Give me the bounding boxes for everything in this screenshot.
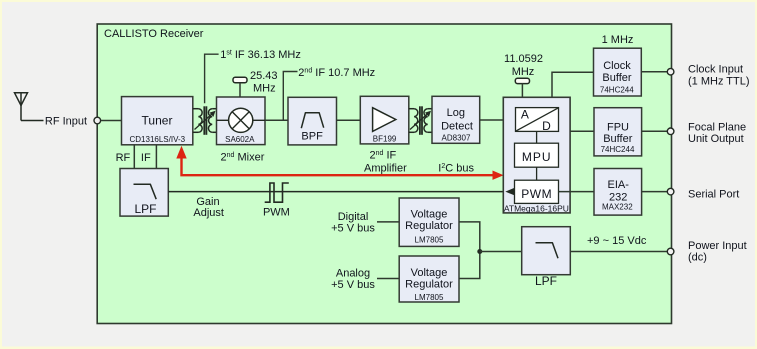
svg-text:FPU: FPU [607, 122, 629, 134]
block Tuner [122, 97, 193, 145]
callout 2nd IF 10.7 MHz [283, 72, 297, 121]
node RF input port [94, 117, 101, 124]
svg-text:MHz: MHz [253, 83, 276, 95]
wire mixer to BPF [265, 119, 288, 121]
block Log Detect AD8307 [432, 96, 480, 143]
svg-text:1 MHz: 1 MHz [602, 34, 634, 46]
transformer T1 [193, 106, 217, 135]
block EIA-232 MAX232 [594, 169, 642, 216]
svg-text:Log: Log [447, 107, 465, 119]
svg-text:BPF: BPF [301, 130, 323, 142]
block FPU Buffer 74HC244 [594, 108, 642, 156]
wire RF port to Tuner [101, 120, 122, 122]
A/D converter box [516, 108, 559, 132]
svg-text:LPF: LPF [535, 274, 557, 288]
svg-text:74HC244: 74HC244 [601, 145, 635, 154]
MPU box [515, 143, 559, 167]
PWM output arrowhead [505, 188, 514, 195]
svg-text:1st IF 36.13 MHz: 1st IF 36.13 MHz [220, 49, 301, 61]
wire regulators to junction [459, 222, 480, 279]
svg-text:RF Input: RF Input [45, 116, 87, 128]
wire gain adjust line (LPF1 to ATmega PWM) [168, 191, 514, 193]
antenna ANT1 [15, 93, 28, 121]
wire ATmega to EIA-232 [559, 191, 595, 193]
svg-text:+5 V bus: +5 V bus [331, 223, 375, 235]
svg-text:Detect: Detect [441, 120, 473, 132]
block LPF2 [522, 227, 571, 288]
svg-text:PWM: PWM [263, 206, 290, 218]
block amplifier BF199 [360, 96, 409, 144]
svg-text:PWM: PWM [521, 187, 552, 201]
svg-text:Regulator: Regulator [405, 279, 453, 291]
T2 tuning arrow [410, 113, 429, 130]
wire MPU to PWM [536, 167, 538, 180]
wire analog bus to regulator 2 [377, 278, 399, 280]
svg-text:EIA-: EIA- [607, 179, 629, 191]
svg-text:Clock: Clock [603, 60, 631, 72]
T1 tuning arrow [195, 113, 214, 130]
transformer T2 [409, 106, 432, 135]
crystal X1 25.43 MHz [233, 70, 278, 97]
svg-text:SA602A: SA602A [225, 135, 255, 144]
svg-text:Buffer: Buffer [603, 133, 632, 145]
svg-text:Voltage: Voltage [411, 209, 448, 221]
svg-text:+9 ~ 15 Vdc: +9 ~ 15 Vdc [587, 235, 647, 247]
wire antenna to RF Input label [21, 120, 44, 122]
crystal X2 11.0592 MHz [504, 53, 543, 97]
svg-text:2nd IF: 2nd IF [370, 149, 397, 161]
block BPF [288, 97, 337, 145]
svg-text:LM7805: LM7805 [415, 236, 444, 245]
svg-text:11.0592: 11.0592 [504, 53, 543, 65]
svg-text:Clock Input: Clock Input [688, 64, 743, 76]
svg-text:(dc): (dc) [688, 252, 707, 264]
svg-text:Focal Plane: Focal Plane [688, 122, 746, 134]
svg-text:RF: RF [116, 152, 131, 164]
svg-text:Unit Output: Unit Output [688, 133, 744, 145]
svg-text:Adjust: Adjust [193, 207, 224, 219]
svg-text:+5 V bus: +5 V bus [331, 279, 375, 291]
wire Tuner IF out to LPF [155, 145, 157, 169]
svg-text:Regulator: Regulator [405, 220, 453, 232]
wire digital bus to regulator 1 [377, 221, 399, 223]
svg-text:(1 MHz TTL): (1 MHz TTL) [688, 75, 750, 87]
node FPU output port [667, 128, 674, 135]
svg-text:MAX232: MAX232 [602, 202, 633, 211]
svg-text:Amplifier: Amplifier [364, 162, 407, 174]
symbol PWM square wave [265, 183, 289, 202]
svg-text:Voltage: Voltage [411, 267, 448, 279]
junction node power bus [477, 249, 482, 254]
wire Clock Buffer to clock port [641, 71, 667, 73]
svg-text:MPU: MPU [522, 150, 552, 164]
svg-text:Tuner: Tuner [142, 114, 173, 128]
svg-text:Analog: Analog [336, 267, 370, 279]
node serial port [667, 188, 674, 195]
block voltage regulator U2 LM7805 [399, 198, 459, 246]
block LPF1 [120, 169, 168, 217]
svg-text:AD8307: AD8307 [442, 133, 471, 142]
svg-text:IF: IF [141, 152, 151, 164]
svg-text:Power Input: Power Input [688, 240, 747, 252]
svg-text:Serial Port: Serial Port [688, 189, 739, 201]
wire Log Detect to ATmega A/D [480, 119, 509, 121]
svg-text:ATMega16-16PU: ATMega16-16PU [504, 204, 569, 214]
svg-text:A: A [521, 108, 529, 122]
svg-text:Buffer: Buffer [602, 72, 631, 84]
svg-text:Digital: Digital [338, 211, 369, 223]
wire BPF to amplifier [337, 119, 361, 121]
block microcontroller ATMega16-16PU [503, 97, 570, 213]
svg-text:CALLISTO Receiver: CALLISTO Receiver [104, 28, 204, 40]
wire FPU Buffer to FPU port [642, 130, 668, 132]
svg-text:CD1316LS/IV-3: CD1316LS/IV-3 [130, 135, 186, 144]
wire EIA-232 to serial port [642, 191, 668, 193]
block Clock Buffer 74HC244 [594, 48, 642, 96]
node power input port [667, 248, 674, 255]
block mixer SA602A [217, 97, 266, 145]
wire Tuner RF out to LPF [133, 145, 135, 169]
wire A/D to MPU [536, 131, 538, 143]
callout 1st IF 36.13 MHz [205, 54, 219, 103]
node clock output port [667, 68, 674, 75]
wire ATmega to Clock Buffer [552, 72, 594, 97]
svg-text:BF199: BF199 [373, 135, 397, 144]
svg-text:MHz: MHz [512, 66, 535, 78]
svg-text:Gain: Gain [196, 196, 219, 208]
svg-text:LM7805: LM7805 [415, 293, 444, 302]
svg-text:D: D [542, 119, 551, 133]
PWM box [515, 180, 559, 203]
enclosure CALLISTO Receiver [97, 24, 671, 324]
red wire gain control (tuner feedback) [182, 150, 495, 175]
wire ATmega to FPU Buffer [570, 130, 594, 132]
svg-text:25.43: 25.43 [250, 70, 278, 82]
wire junction to LPF2 [480, 251, 522, 253]
wire LPF2 to power input port [570, 251, 667, 253]
svg-text:LPF: LPF [134, 202, 156, 216]
svg-text:74HC244: 74HC244 [600, 86, 634, 95]
block voltage regulator U3 LM7805 [399, 256, 459, 302]
